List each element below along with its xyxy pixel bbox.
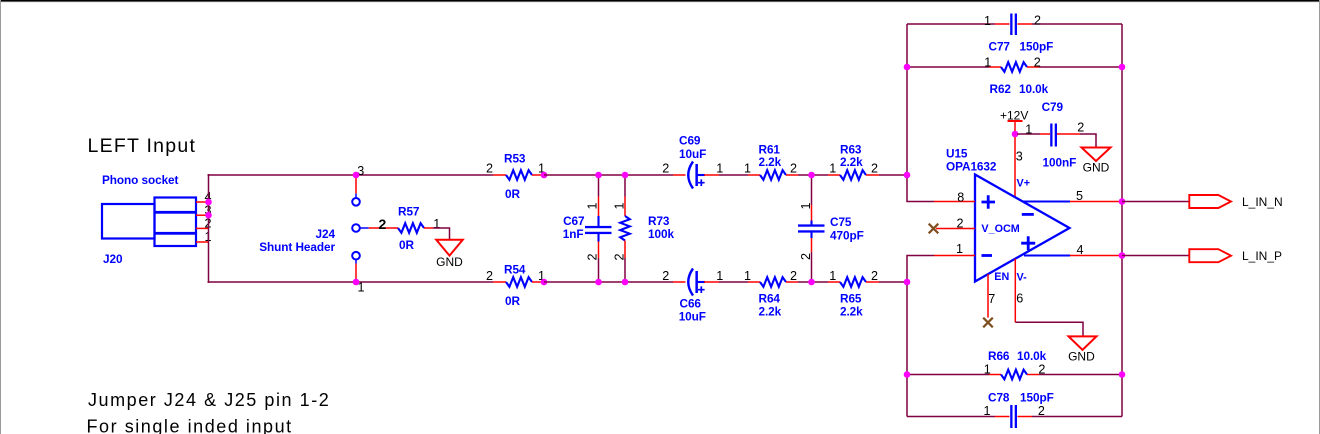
junction dot R66 left	[904, 371, 911, 378]
svg-text:2.2k: 2.2k	[840, 155, 863, 169]
power +12V symbol	[1008, 120, 1023, 134]
R54 pin 1 number	[538, 269, 545, 283]
wire R63 pin1 stub	[828, 174, 840, 176]
svg-text:Shunt Header: Shunt Header	[259, 240, 335, 254]
label R66 value 10.0k	[1017, 349, 1047, 363]
junction dot R62 left	[904, 64, 911, 71]
svg-text:2: 2	[871, 162, 878, 176]
wire bottom bus seg5	[879, 281, 907, 283]
svg-text:1: 1	[716, 269, 723, 283]
wire R65 pin2 stub	[866, 281, 879, 283]
svg-text:V-: V-	[1017, 272, 1028, 284]
svg-text:R53: R53	[504, 151, 526, 165]
wire C77 row left	[907, 23, 995, 25]
wire R64 pin1 stub	[748, 281, 760, 283]
wire U15 pin1 stub	[934, 255, 975, 257]
wire C79 pin1 stub	[1040, 133, 1050, 135]
wire R73 branch bottom	[624, 241, 626, 283]
svg-text:R66: R66	[988, 349, 1010, 363]
wire C67 branch top	[598, 175, 600, 216]
C75 pin 1 number	[799, 202, 813, 209]
J20 pin 3 wire	[196, 214, 209, 216]
label J20	[103, 252, 123, 266]
ground symbol near pin6	[1069, 336, 1097, 350]
capacitor C66	[688, 269, 705, 296]
R53 pin 2 number	[486, 162, 493, 176]
U15 pin 7 number	[988, 292, 995, 306]
svg-text:C69: C69	[679, 134, 701, 148]
wire C79 to GND	[1080, 134, 1096, 148]
label R61 value 2.2k	[759, 155, 782, 169]
label R64	[759, 292, 781, 306]
wire R57 to GND	[433, 228, 450, 240]
junction dot bottom bus end	[904, 279, 911, 286]
svg-text:R54: R54	[504, 262, 526, 276]
label C69	[679, 134, 701, 148]
U15 pin 2 number	[956, 216, 963, 230]
svg-text:1: 1	[829, 162, 836, 176]
C67 pin 1 number	[586, 202, 600, 209]
label R73	[648, 214, 670, 228]
wire C78 pin1 stub	[995, 416, 1010, 418]
svg-text:Jumper J24 & J25 pin 1-2: Jumper J24 & J25 pin 1-2	[88, 390, 330, 410]
svg-text:J24: J24	[316, 227, 336, 241]
label OPA1632	[946, 159, 997, 173]
junction dot J20 pin4	[205, 199, 212, 206]
wire R53 pin1 stub	[532, 174, 544, 176]
J20 pin 1 number	[204, 230, 211, 244]
wire C78 row left	[907, 416, 995, 418]
label V_OCM	[981, 223, 1019, 235]
R62 pin 1 number	[984, 56, 991, 70]
wire C67 branch bottom	[598, 242, 600, 283]
junction dot C67 bottom	[595, 279, 602, 286]
svg-text:1: 1	[586, 202, 600, 209]
wire R63 pin2 stub	[866, 174, 879, 176]
wire J24 pin2 stub	[360, 227, 398, 229]
svg-text:2.2k: 2.2k	[759, 155, 782, 169]
U15 pin 6 number	[1016, 292, 1023, 306]
junction dot C67 top	[595, 172, 602, 179]
wire R62 pin2 stub	[1027, 66, 1039, 68]
sheet border top	[0, 0, 1320, 2]
label R53 value 0R	[505, 187, 520, 201]
svg-text:2.2k: 2.2k	[840, 305, 863, 319]
svg-text:2: 2	[379, 216, 387, 232]
note line 2	[87, 417, 293, 434]
U15 pin 3 number	[1016, 149, 1023, 163]
svg-text:C75: C75	[830, 215, 852, 229]
label R62	[990, 82, 1012, 96]
C67 pin 2 number	[586, 253, 600, 260]
port L_IN_N symbol	[1189, 195, 1231, 208]
wire U15 pin2 stub	[936, 228, 975, 230]
svg-text:0R: 0R	[505, 294, 520, 308]
wire R73 branch top	[624, 175, 626, 216]
R66 pin 2 number	[1038, 363, 1045, 377]
label R61	[759, 143, 781, 157]
wire C69 pin2 stub	[673, 174, 686, 176]
junction dot J24 pin1	[353, 279, 360, 286]
svg-text:2: 2	[486, 162, 493, 176]
label Shunt Header	[259, 240, 335, 254]
wire R62 row right	[1039, 66, 1122, 68]
svg-text:Phono socket: Phono socket	[102, 173, 179, 187]
svg-text:1: 1	[983, 404, 990, 418]
U15 pin 1 number	[956, 242, 963, 256]
note line 1	[88, 390, 330, 410]
capacitor C78	[1010, 405, 1017, 428]
label C67	[563, 214, 585, 228]
label R54	[504, 262, 526, 276]
R61 pin 2 number	[790, 162, 797, 176]
label L_IN_P	[1242, 249, 1282, 263]
J24 pin 1 number	[357, 281, 364, 295]
R64 pin 2 number	[790, 269, 797, 283]
wire R64 pin2 stub	[786, 281, 798, 283]
wire left vertical bus	[208, 174, 210, 283]
svg-text:5: 5	[1076, 189, 1083, 203]
C79 pin 2 number	[1077, 120, 1084, 134]
wire U15 pin6 stub	[1014, 259, 1016, 323]
svg-text:2.2k: 2.2k	[759, 305, 782, 319]
capacitor C69	[688, 162, 705, 189]
svg-text:R65: R65	[840, 292, 862, 306]
resistor R54	[506, 277, 532, 287]
label V+	[1017, 177, 1031, 189]
svg-text:150pF: 150pF	[1020, 391, 1054, 405]
junction dot R73 top	[622, 172, 629, 179]
svg-text:2: 2	[586, 253, 600, 260]
svg-text:4: 4	[1076, 243, 1083, 257]
J20 pin 2 number	[204, 217, 211, 231]
op-amp minus input sign	[982, 254, 993, 257]
J20 pin 1 wire	[196, 241, 209, 243]
label J24	[316, 227, 336, 241]
R57 pin 1 number	[433, 217, 440, 231]
label R57	[398, 205, 420, 219]
svg-text:2: 2	[790, 269, 797, 283]
wire +12V to pin3	[1014, 134, 1016, 198]
svg-text:2: 2	[956, 216, 963, 230]
wire C66 pin2 stub	[673, 281, 686, 283]
label R73 value 100k	[648, 227, 674, 241]
J20 pin 4 number	[204, 190, 211, 204]
svg-text:GND: GND	[436, 255, 463, 269]
resistor R57	[398, 223, 424, 233]
wire R54 pin1 stub	[532, 281, 544, 283]
junction dot R62 right	[1119, 64, 1126, 71]
label C79 value 100nF	[1043, 156, 1077, 170]
wire C75 branch bottom	[811, 238, 813, 282]
wire top bus seg3	[719, 174, 748, 176]
label R54 value 0R	[505, 294, 520, 308]
junction dot top bus end	[904, 172, 911, 179]
svg-text:C67: C67	[563, 214, 585, 228]
svg-text:2: 2	[1038, 404, 1045, 418]
svg-text:OPA1632: OPA1632	[946, 159, 997, 173]
junction dot R53 out	[541, 172, 548, 179]
wire C79 row left	[1017, 133, 1040, 135]
label R53	[504, 151, 526, 165]
svg-text:1: 1	[799, 202, 813, 209]
svg-text:C78: C78	[988, 391, 1010, 405]
label R63	[840, 143, 862, 157]
wire J24 pin3 stub	[355, 175, 357, 198]
R62 pin 2 number	[1034, 55, 1041, 69]
svg-text:GND: GND	[1068, 350, 1095, 364]
svg-text:1: 1	[716, 162, 723, 176]
J20 pin 3 number	[204, 203, 211, 217]
svg-text:10.0k: 10.0k	[1019, 82, 1049, 96]
C77 pin 1 number	[984, 14, 991, 28]
junction dot C75 top	[808, 172, 815, 179]
op-amp plus output sign	[1021, 236, 1035, 250]
svg-text:8: 8	[957, 190, 964, 204]
svg-text:10uF: 10uF	[679, 310, 706, 324]
R61 pin 1 number	[744, 162, 751, 176]
svg-text:10.0k: 10.0k	[1017, 349, 1047, 363]
label C79	[1042, 100, 1064, 114]
junction dot R66 right	[1119, 371, 1126, 378]
label C66 value 10uF	[679, 310, 706, 324]
J24 pin 3 number	[357, 164, 364, 178]
svg-text:2: 2	[799, 253, 813, 260]
wire bottom bus seg2	[544, 281, 673, 283]
junction dot J20 pin3	[205, 212, 212, 219]
svg-text:0R: 0R	[505, 187, 520, 201]
svg-text:1: 1	[744, 162, 751, 176]
J24 pin 1 circle	[352, 252, 360, 260]
wire J24 pin1 stub	[355, 260, 357, 283]
C69 pin 2 number	[662, 162, 669, 176]
wire C66 pin1 stub	[704, 281, 719, 283]
J20 pin 4 wire	[196, 201, 209, 203]
capacitor C67	[585, 216, 612, 242]
ground symbol near R57	[436, 240, 463, 256]
capacitor C75	[798, 221, 825, 239]
capacitor C77	[1010, 14, 1017, 36]
wire left feedback vertical lower	[907, 256, 934, 417]
label C78	[988, 391, 1010, 405]
resistor R61	[760, 170, 786, 180]
wire R65 pin1 stub	[828, 281, 840, 283]
svg-text:2: 2	[871, 269, 878, 283]
label C77	[989, 40, 1011, 54]
J20 pin 2 wire	[196, 227, 209, 229]
wire C79 pin2 stub	[1057, 133, 1080, 135]
J24 pin 3 circle	[352, 198, 360, 206]
label U15	[946, 147, 968, 161]
C69 pin 1 number	[716, 162, 723, 176]
wire bottom bus seg1	[208, 281, 494, 283]
R54 pin 2 number	[486, 269, 493, 283]
svg-text:R62: R62	[990, 82, 1012, 96]
resistor R65	[840, 277, 866, 287]
svg-text:V+: V+	[1017, 177, 1031, 189]
resistor R64	[760, 277, 786, 287]
title LEFT Input	[88, 135, 197, 157]
svg-text:2: 2	[486, 269, 493, 283]
wire left feedback vertical upper	[907, 24, 934, 202]
svg-text:1: 1	[829, 269, 836, 283]
label C75 value 470pF	[830, 229, 864, 243]
svg-text:1: 1	[984, 56, 991, 70]
wire U15 pin5 stub	[1023, 200, 1122, 202]
label L_IN_N	[1242, 195, 1283, 209]
U15 pin 8 number	[957, 190, 964, 204]
label C66	[680, 297, 702, 311]
svg-text:V_OCM: V_OCM	[981, 223, 1019, 235]
svg-text:For single inded input: For single inded input	[87, 417, 293, 434]
svg-text:150pF: 150pF	[1020, 40, 1054, 54]
J24 pin 2 number	[379, 216, 387, 232]
junction dot C75 bottom	[808, 279, 815, 286]
resistor R62	[1001, 62, 1027, 72]
R63 pin 1 number	[829, 162, 836, 176]
svg-text:+12V: +12V	[1000, 108, 1028, 122]
wire U15 pin4 stub	[1024, 254, 1122, 256]
wire U15 pin7 stub	[987, 274, 989, 318]
junction dot R73 bottom	[622, 279, 629, 286]
op-amp plus input sign	[982, 195, 996, 209]
svg-text:R57: R57	[398, 205, 420, 219]
svg-text:1: 1	[956, 242, 963, 256]
junction dot pin5 node	[1119, 198, 1126, 205]
svg-text:C79: C79	[1042, 100, 1064, 114]
connector J20 body	[102, 198, 196, 247]
wire R62 row left	[907, 66, 989, 68]
C79 pin 1 number	[1025, 122, 1032, 136]
wire to port L_IN_P	[1122, 255, 1190, 257]
svg-text:100nF: 100nF	[1043, 156, 1077, 170]
svg-text:0R: 0R	[399, 238, 414, 252]
svg-text:C77: C77	[989, 40, 1011, 54]
wire top bus seg4	[798, 174, 828, 176]
wire C69 pin1 stub	[704, 174, 719, 176]
junction dot R54 out	[541, 279, 548, 286]
wire top bus seg2	[544, 174, 673, 176]
wire R66 pin2 stub	[1027, 374, 1039, 376]
svg-text:C66: C66	[680, 297, 702, 311]
R65 pin 2 number	[871, 269, 878, 283]
svg-text:2: 2	[662, 269, 669, 283]
svg-text:1: 1	[984, 363, 991, 377]
wire R66 row right	[1039, 374, 1122, 376]
wire R66 pin1 stub	[989, 374, 1001, 376]
svg-text:100k: 100k	[648, 227, 674, 241]
svg-text:J20: J20	[103, 252, 123, 266]
U15 pin 4 number	[1076, 243, 1083, 257]
label +12V	[1000, 108, 1028, 122]
U15 pin 5 number	[1076, 189, 1083, 203]
wire R62 pin1 stub	[989, 66, 1001, 68]
R73 pin 2 number	[613, 253, 627, 260]
wire U15 pin8 stub	[934, 201, 975, 203]
wire R66 row left	[907, 374, 989, 376]
wire top bus seg5	[879, 174, 907, 176]
svg-text:R73: R73	[648, 214, 670, 228]
resistor R66	[1001, 370, 1027, 380]
wire R53 pin2 stub	[493, 174, 506, 176]
op-amp minus output sign	[1022, 213, 1034, 216]
junction dot J24 pin3	[353, 172, 360, 179]
wire R54 pin2 stub	[493, 281, 506, 283]
svg-text:470pF: 470pF	[830, 229, 864, 243]
junction dot pin4 node	[1119, 252, 1126, 259]
label GND near C79	[1083, 161, 1110, 175]
svg-text:LEFT Input: LEFT Input	[88, 135, 197, 157]
label R66	[988, 349, 1010, 363]
svg-text:EN: EN	[994, 271, 1009, 283]
no-connect X pin2	[929, 224, 939, 234]
wire pin6 to GND	[1015, 322, 1083, 336]
R66 pin 1 number	[984, 363, 991, 377]
label GND near pin6	[1068, 350, 1095, 364]
label C67 value 1nF	[563, 227, 584, 241]
svg-text:2: 2	[1034, 14, 1041, 28]
C78 pin 2 number	[1038, 404, 1045, 418]
capacitor C79	[1050, 124, 1057, 147]
sheet border right	[1319, 0, 1320, 434]
svg-text:3: 3	[1016, 149, 1023, 163]
resistor R63	[840, 170, 866, 180]
no-connect X pin7	[983, 318, 993, 328]
svg-text:6: 6	[1016, 292, 1023, 306]
svg-text:L_IN_N: L_IN_N	[1242, 195, 1283, 209]
wire R57 pin1 stub	[424, 227, 433, 229]
C75 pin 2 number	[799, 253, 813, 260]
svg-text:1: 1	[1025, 122, 1032, 136]
C66 pin 2 number	[662, 269, 669, 283]
svg-text:7: 7	[988, 292, 995, 306]
svg-text:1nF: 1nF	[563, 227, 584, 241]
label C75	[830, 215, 852, 229]
J24 pin 2 circle	[352, 224, 360, 232]
C66 pin 1 number	[716, 269, 723, 283]
svg-text:2: 2	[662, 162, 669, 176]
label C78 value 150pF	[1020, 391, 1054, 405]
wire top bus seg1	[208, 174, 494, 176]
op-amp U15 triangle	[975, 175, 1070, 282]
label C69 value 10uF	[679, 147, 706, 161]
label Phono socket	[102, 173, 179, 187]
wire C77 pin1 stub	[995, 23, 1010, 25]
label R64 value 2.2k	[759, 305, 782, 319]
R73 pin 1 number	[613, 202, 627, 209]
svg-text:L_IN_P: L_IN_P	[1242, 249, 1282, 263]
R64 pin 1 number	[744, 269, 751, 283]
wire right feedback vertical	[1121, 24, 1123, 417]
ground symbol near C79	[1082, 148, 1111, 162]
label C77 value 150pF	[1020, 40, 1054, 54]
sheet border left	[0, 0, 1, 434]
label R62 value 10.0k	[1019, 82, 1049, 96]
svg-text:1: 1	[984, 14, 991, 28]
svg-text:2: 2	[1038, 363, 1045, 377]
label V-	[1017, 272, 1028, 284]
wire R61 pin2 stub	[786, 174, 798, 176]
label R57 value 0R	[399, 238, 414, 252]
svg-text:10uF: 10uF	[679, 147, 706, 161]
label R63 value 2.2k	[840, 155, 863, 169]
label EN	[994, 271, 1009, 283]
R65 pin 1 number	[829, 269, 836, 283]
R63 pin 2 number	[871, 162, 878, 176]
wire to port L_IN_N	[1122, 201, 1190, 203]
wire C77 pin2 stub	[1018, 23, 1033, 25]
svg-text:GND: GND	[1083, 161, 1110, 175]
